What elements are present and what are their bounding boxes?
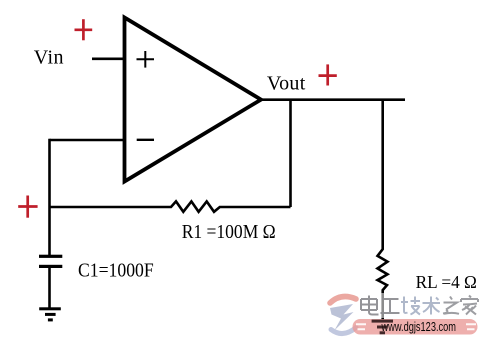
- svg-text:C1=1000F: C1=1000F: [78, 259, 154, 281]
- svg-text:RL =4 Ω: RL =4 Ω: [416, 272, 477, 292]
- svg-text:Vin: Vin: [34, 46, 64, 68]
- svg-text:R1 =100M Ω: R1 =100M Ω: [182, 221, 276, 243]
- svg-text:Vout: Vout: [267, 72, 306, 94]
